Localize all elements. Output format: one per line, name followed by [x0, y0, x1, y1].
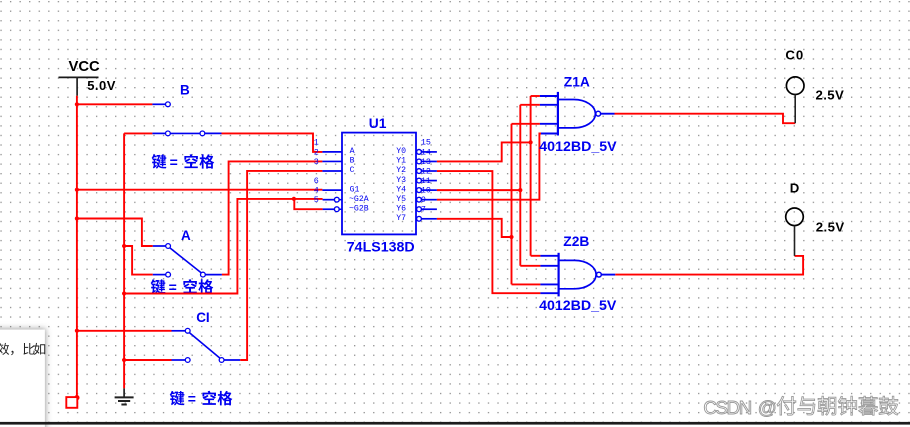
- U1 pin name Y5: [396, 195, 406, 204]
- svg-text:Y6: Y6: [396, 204, 406, 213]
- svg-text:Y7: Y7: [396, 214, 406, 223]
- wire VCC to B upper throw: [77, 103, 152, 105]
- node G2 junction: [292, 197, 296, 201]
- svg-text:7: 7: [421, 205, 426, 215]
- U1 pin number 9: [421, 195, 426, 205]
- U1 pin 2 B stub: [322, 160, 342, 162]
- wire A common to U1 pin2: [222, 161, 323, 274]
- svg-text:14: 14: [421, 147, 431, 157]
- probe C0: [786, 77, 804, 123]
- svg-text:1: 1: [314, 138, 319, 148]
- wire Y7 vertical to gates: [511, 124, 513, 285]
- svg-text:D: D: [790, 180, 800, 195]
- U1 pin number 1: [314, 138, 319, 148]
- Z2B input stubs: [540, 256, 558, 293]
- wire Y4 vertical to gates: [519, 105, 521, 266]
- node VCC-G1 junction: [75, 188, 79, 192]
- svg-text:4: 4: [314, 185, 319, 195]
- label 2.5V D: [816, 220, 845, 235]
- node GND-A junction: [122, 244, 126, 248]
- svg-text:4012BD_5V: 4012BD_5V: [539, 298, 617, 314]
- label CI: [196, 310, 210, 325]
- svg-text:15: 15: [421, 138, 431, 148]
- U1 pin number 14: [421, 147, 431, 157]
- label 2.5V C0: [816, 87, 845, 102]
- U1 pin number 15: [421, 138, 431, 148]
- U1 pin number 10: [421, 185, 431, 195]
- svg-text:CI: CI: [196, 310, 210, 325]
- wire Y1 net: [437, 142, 531, 161]
- node Y4 junction: [518, 188, 522, 192]
- U1 pin 9 Y6 stub: [417, 207, 437, 212]
- U1 pin 4 ~G2A stub: [323, 197, 342, 202]
- Z1A output stub: [601, 113, 615, 115]
- svg-text:Z2B: Z2B: [563, 234, 589, 249]
- svg-text:12: 12: [421, 166, 431, 176]
- wire CI common to U1 pin3: [240, 171, 322, 360]
- node VCC-A junction: [75, 216, 79, 220]
- tooltip text: [0, 343, 45, 355]
- U1 pin name Y2: [396, 166, 406, 175]
- wire Y4 net: [437, 189, 520, 191]
- svg-text:Z1A: Z1A: [564, 75, 590, 90]
- U1 pin 5 ~G2B stub: [323, 207, 342, 212]
- wire GND to CI lower throw: [124, 359, 171, 361]
- label 74LS138D: [347, 239, 415, 255]
- wire GND to B lower throw: [124, 132, 152, 134]
- wire B common to U1 pin1: [222, 133, 323, 152]
- svg-text:A: A: [181, 228, 191, 243]
- tooltip popup: [0, 330, 45, 427]
- U1 pin name C: [350, 166, 355, 175]
- U1 pin name Y4: [396, 185, 406, 194]
- wire ground rail vertical: [123, 133, 125, 388]
- svg-text:@: @: [758, 397, 777, 418]
- svg-text:3: 3: [314, 157, 319, 167]
- wire VCC to CI upper throw: [77, 330, 172, 332]
- wire Y1 to Z2B input1: [531, 255, 541, 257]
- svg-text:74LS138D: 74LS138D: [347, 239, 415, 255]
- wire Y7 to Z1A input3: [512, 123, 540, 125]
- U1 pin name A: [350, 147, 355, 156]
- node Y7 junction: [509, 235, 513, 239]
- U1 pin 12 Y3 stub: [417, 178, 437, 183]
- svg-text:5.0V: 5.0V: [87, 78, 116, 93]
- wire Y1 vertical to gates: [530, 96, 532, 256]
- label VCC: [69, 59, 101, 75]
- wire Y7 to Z2B input3: [512, 283, 541, 285]
- wire Y5 net: [437, 134, 541, 200]
- node Y1 junction: [529, 140, 533, 144]
- svg-text:=: =: [188, 391, 196, 407]
- svg-text:Y5: Y5: [396, 195, 406, 204]
- label C0: [785, 48, 804, 63]
- svg-text:Y0: Y0: [396, 147, 406, 156]
- wire GND to A lower throw: [124, 246, 153, 275]
- label U1: [369, 116, 387, 131]
- label 5.0V: [87, 78, 116, 93]
- NAND gate Z1A: [558, 92, 601, 136]
- U1 pin number 3: [314, 157, 319, 167]
- U1 pin 11 Y4 stub: [417, 188, 437, 193]
- svg-text:Y4: Y4: [396, 185, 406, 194]
- terminal red square: [66, 397, 77, 408]
- svg-text:2.5V: 2.5V: [816, 87, 845, 102]
- U1 pin name Y6: [396, 204, 406, 213]
- label key-space A: [151, 279, 214, 295]
- svg-text:4012BD_5V: 4012BD_5V: [539, 139, 617, 155]
- svg-text:A: A: [350, 147, 355, 156]
- power VCC symbol: [59, 77, 99, 96]
- svg-text:B: B: [180, 82, 190, 97]
- svg-text:VCC: VCC: [69, 59, 101, 75]
- U1 pin number 4: [314, 185, 319, 195]
- ground: [115, 388, 134, 404]
- U1 pin 13 Y2 stub: [417, 169, 437, 174]
- svg-text:5: 5: [314, 195, 319, 205]
- Z1A input stubs: [540, 96, 558, 134]
- bottom window border: [0, 422, 910, 425]
- label 4012BD_5V Z2B: [539, 298, 617, 314]
- Z2B output stub: [601, 274, 615, 276]
- node VCC rail end junction: [74, 395, 79, 400]
- wire Y1 to Z1A input1: [531, 95, 540, 97]
- svg-text:13: 13: [421, 157, 431, 167]
- switch A: [153, 244, 222, 277]
- wire G2A to G2B branch: [294, 199, 322, 209]
- switch CI: [172, 328, 241, 362]
- U1 pin number 5: [314, 195, 319, 205]
- U1 pin 14 Y1 stub: [417, 159, 437, 164]
- U1 pin name B: [350, 157, 355, 166]
- svg-text:~G2A: ~G2A: [349, 195, 369, 204]
- U1 pin number 7: [421, 205, 426, 215]
- node GND-G2 junction: [122, 291, 126, 295]
- wire Z1A output to probe C0: [615, 114, 796, 124]
- probe D: [786, 208, 804, 256]
- wire Y4 to Z1A input2: [520, 104, 540, 106]
- svg-text:C0: C0: [785, 48, 804, 63]
- U1 pin name G1: [350, 185, 360, 194]
- U1 pin number 2: [314, 147, 319, 157]
- svg-text:9: 9: [421, 195, 426, 205]
- U1 pin 3 C stub: [322, 170, 342, 172]
- label Z2B: [563, 234, 589, 249]
- svg-text:2.5V: 2.5V: [816, 220, 845, 235]
- U1 pin number 12: [421, 166, 431, 176]
- svg-text:2: 2: [314, 147, 319, 157]
- U1 pin 6 G1 stub: [322, 189, 342, 191]
- watermark CSDN: [703, 397, 776, 418]
- U1 pin name Y3: [396, 176, 406, 185]
- wire Z2B output to probe D: [615, 256, 803, 275]
- U1 pin 10 Y5 stub: [417, 197, 437, 202]
- node VCC-CI junction: [75, 329, 79, 333]
- svg-text:~G2B: ~G2B: [349, 204, 369, 213]
- U1 pin number 11: [421, 176, 431, 186]
- svg-text:B: B: [350, 157, 355, 166]
- svg-text:CSDN: CSDN: [703, 397, 752, 418]
- NAND gate Z2B: [559, 253, 602, 297]
- label A: [181, 228, 191, 243]
- wire GND to G2A G2B: [124, 199, 323, 294]
- label D: [790, 180, 800, 195]
- U1 pin number 6: [314, 176, 319, 186]
- U1 pin name ~G2A: [349, 195, 369, 204]
- watermark handle: [777, 396, 898, 415]
- svg-text:=: =: [170, 154, 178, 170]
- wire VCC to G1: [77, 189, 323, 191]
- node GND-CI junction: [122, 358, 126, 362]
- U1 pin 7 Y7 stub: [417, 216, 437, 221]
- wire Y2 net: [437, 171, 541, 293]
- U1 pin name Y7: [396, 214, 406, 223]
- wire Y4 to Z2B input2: [520, 265, 540, 267]
- switch B: [152, 102, 221, 136]
- U1 pin name Y0: [396, 147, 406, 156]
- label key-space CI: [170, 391, 233, 407]
- svg-text:6: 6: [314, 176, 319, 186]
- U1 pin number 13: [421, 157, 431, 167]
- label key-space B: [152, 154, 215, 170]
- op-amp U1 body: [342, 133, 416, 235]
- svg-text:C: C: [350, 166, 355, 175]
- wire VCC to A upper throw: [77, 219, 153, 247]
- U1 pin 1 A stub: [322, 151, 342, 153]
- wire Y7 net: [437, 219, 512, 237]
- U1 pin name Y1: [396, 157, 406, 166]
- svg-text:Y2: Y2: [396, 166, 406, 175]
- wire VCC rail vertical: [76, 96, 78, 398]
- U1 pin name ~G2B: [349, 204, 369, 213]
- svg-text:U1: U1: [369, 116, 387, 131]
- svg-text:11: 11: [421, 176, 431, 186]
- label Z1A: [564, 75, 590, 90]
- U1 pin 15 Y0 stub: [417, 150, 437, 155]
- label B: [180, 82, 190, 97]
- svg-text:G1: G1: [350, 185, 360, 194]
- label 4012BD_5V Z1A: [539, 139, 617, 155]
- svg-text:10: 10: [421, 185, 431, 195]
- svg-text:Y3: Y3: [396, 176, 406, 185]
- svg-text:Y1: Y1: [396, 157, 406, 166]
- node VCC-B junction: [75, 102, 79, 106]
